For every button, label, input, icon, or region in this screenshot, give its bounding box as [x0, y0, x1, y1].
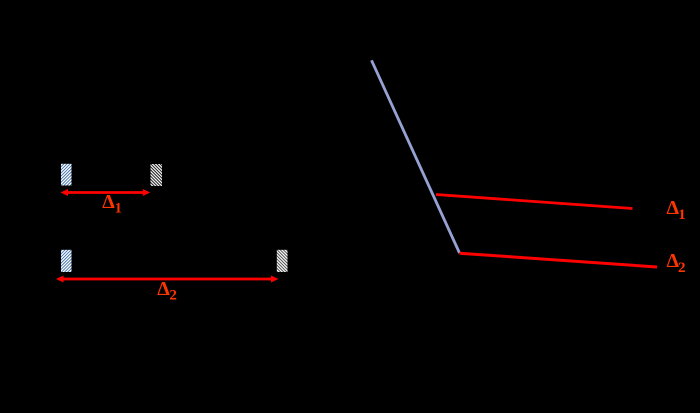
svg-text:1: 1 — [115, 201, 122, 217]
svg-text:Δ: Δ — [102, 191, 115, 213]
svg-text:1: 1 — [678, 207, 686, 223]
svg-text:2: 2 — [678, 260, 686, 276]
svg-text:Δ: Δ — [157, 278, 170, 300]
svg-text:2: 2 — [169, 288, 177, 304]
